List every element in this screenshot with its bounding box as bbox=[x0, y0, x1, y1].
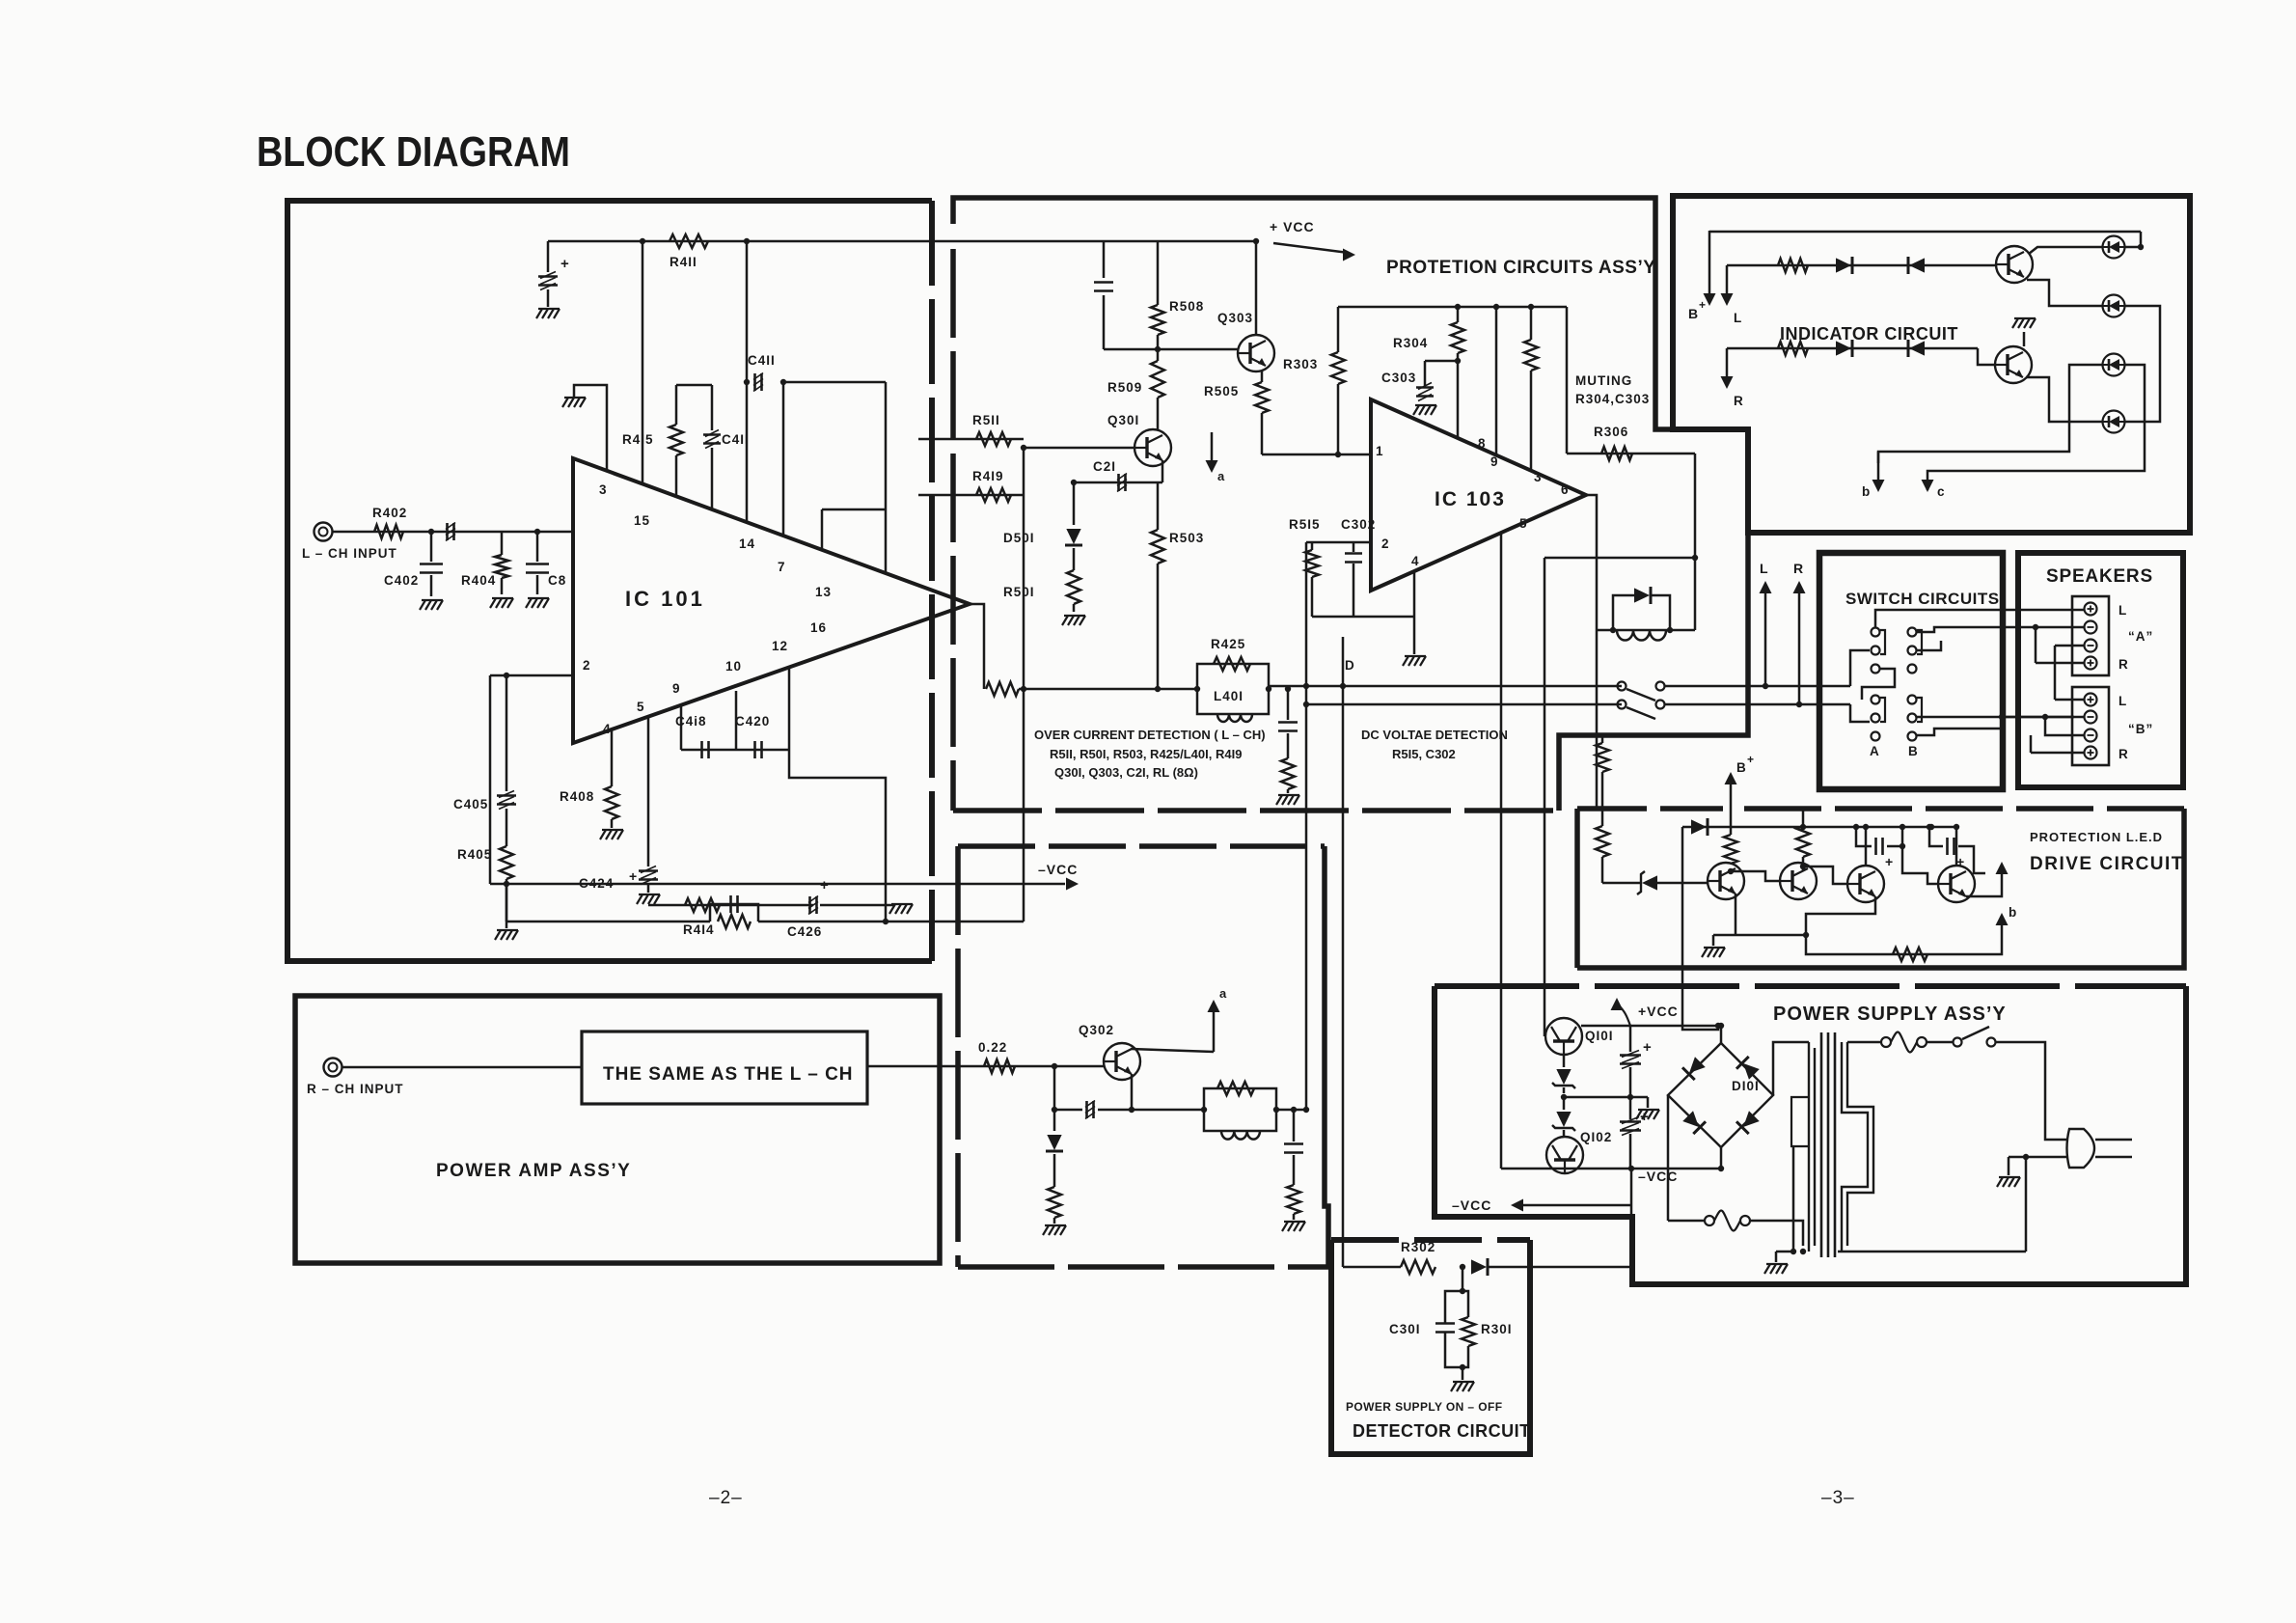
transformer core bbox=[1820, 1032, 1823, 1257]
wire +VCC rail box1 bbox=[548, 240, 1256, 243]
svg-text:a: a bbox=[1219, 986, 1227, 1001]
svg-text:+: + bbox=[1643, 1039, 1653, 1056]
terminal A Lminus bbox=[2085, 621, 2097, 634]
wire T1 emitter to LED2 bbox=[2027, 280, 2102, 306]
resistor R304 bbox=[1457, 307, 1460, 322]
wire feedback elbow bbox=[789, 750, 886, 921]
ground xfmr bbox=[1775, 1252, 1778, 1262]
resistor R302 bbox=[1401, 1260, 1435, 1274]
wire Q303 collector bbox=[1255, 241, 1258, 335]
box R-CH protection circuits outline bbox=[958, 843, 1325, 849]
svg-text:+: + bbox=[820, 877, 830, 894]
diode D det bbox=[1471, 1259, 1487, 1274]
capacitor C303 bbox=[1425, 360, 1458, 363]
svg-text:R: R bbox=[2118, 747, 2129, 761]
svg-text:4: 4 bbox=[1411, 554, 1420, 568]
wire second line bbox=[1306, 703, 1622, 706]
svg-text:13: 13 bbox=[815, 585, 832, 599]
wire C424 tail bbox=[647, 883, 650, 893]
ground C402 bbox=[420, 600, 425, 610]
resistor R 0.22 bbox=[984, 1059, 1015, 1073]
capacitor C424 bbox=[639, 869, 658, 872]
resistor R indicator L bbox=[1778, 259, 1808, 272]
ground R404 bbox=[490, 598, 496, 608]
box R-CH power amp assy outline bbox=[295, 996, 940, 1263]
wire sw B lower bot bbox=[1917, 627, 2002, 735]
svg-text:3: 3 bbox=[1534, 470, 1543, 484]
box protection led drive circuit outline bbox=[1574, 809, 1580, 968]
svg-text:4: 4 bbox=[603, 722, 612, 736]
resistor R419 bbox=[976, 488, 1011, 502]
svg-text:R4II: R4II bbox=[670, 255, 697, 269]
svg-text:–VCC: –VCC bbox=[1452, 1197, 1491, 1213]
ground +VCC cap bbox=[536, 309, 542, 318]
svg-text:+VCC: +VCC bbox=[1638, 1004, 1679, 1019]
resistor R drive b bbox=[1893, 948, 1927, 961]
switch cluster A lower bbox=[1872, 696, 1880, 704]
wire pin2 drop bbox=[489, 675, 492, 884]
wire D drop bbox=[1342, 637, 1345, 1267]
capacitor parallel RC bbox=[729, 895, 732, 913]
diode D101 sw bbox=[1681, 1110, 1706, 1134]
transistor Q ind R bbox=[1995, 346, 2032, 383]
resistor R303 bbox=[1337, 307, 1340, 352]
svg-text:C8: C8 bbox=[548, 573, 566, 588]
terminal B Rminus bbox=[2085, 729, 2097, 742]
node RL right bbox=[1273, 1107, 1279, 1113]
node pin9 rail bbox=[1493, 304, 1499, 310]
arrow R up bbox=[1796, 701, 1802, 707]
node R508 bottom bbox=[1155, 346, 1161, 352]
svg-text:b: b bbox=[2009, 905, 2017, 920]
svg-text:16: 16 bbox=[810, 620, 827, 635]
svg-text:7: 7 bbox=[778, 560, 786, 574]
capacitor C decouple + bbox=[547, 241, 550, 272]
wire det feed bbox=[1343, 1266, 1401, 1269]
wire pin13 bracket bbox=[822, 509, 886, 511]
svg-text:R509: R509 bbox=[1107, 380, 1142, 395]
wire Q301 emitter bbox=[1162, 460, 1164, 482]
svg-text:C30I: C30I bbox=[1389, 1322, 1421, 1336]
wire sw R elbow bbox=[1850, 704, 1870, 722]
resistor R511 wire bbox=[918, 438, 1024, 441]
svg-text:R5I5: R5I5 bbox=[1289, 517, 1321, 532]
wire Q301 base row bbox=[1024, 447, 1134, 450]
wire y955 long bbox=[506, 921, 710, 923]
svg-text:SPEAKERS: SPEAKERS bbox=[2046, 566, 2153, 587]
wire main L out bbox=[1269, 685, 1622, 688]
wire C detect drop bbox=[1287, 689, 1290, 720]
wire Q2 collector bbox=[1802, 864, 1805, 871]
svg-text:DETECTOR CIRCUIT: DETECTOR CIRCUIT bbox=[1353, 1421, 1531, 1441]
node C301 top bbox=[1460, 1288, 1465, 1294]
node cap1 right rail bbox=[1900, 824, 1905, 830]
node RL left bbox=[1201, 1107, 1207, 1113]
wire pin7 feed bbox=[782, 382, 785, 536]
arrow b drive bbox=[1996, 913, 2009, 925]
capacitor C420 bbox=[753, 741, 756, 758]
arrow c down bbox=[1922, 480, 1934, 492]
node Q2 rail bbox=[1800, 824, 1806, 830]
arrow a up box3 bbox=[1131, 1049, 1214, 1052]
wire pin9 feed bbox=[1495, 307, 1498, 455]
ground indicator bbox=[2012, 318, 2018, 328]
svg-text:Q303: Q303 bbox=[1217, 311, 1253, 325]
wire term B L- bbox=[2002, 716, 2084, 719]
svg-text:–VCC: –VCC bbox=[1638, 1169, 1678, 1184]
wire term A L+ bbox=[2074, 609, 2084, 612]
wire relay branch bbox=[1694, 558, 1697, 630]
wire T2 emitter to LED4 bbox=[2026, 377, 2102, 422]
svg-text:PROTETION CIRCUITS ASS’Y: PROTETION CIRCUITS ASS’Y bbox=[1386, 258, 1655, 278]
wire Q1 to Q2 base bbox=[1731, 871, 1780, 881]
wire term B R- bbox=[2045, 717, 2084, 735]
resistor R415 bbox=[675, 385, 678, 425]
svg-text:“B”: “B” bbox=[2128, 722, 2153, 736]
svg-text:+: + bbox=[1699, 298, 1707, 312]
wire LED2 to LED4 chain bbox=[2125, 306, 2160, 422]
svg-text:DRIVE CIRCUIT: DRIVE CIRCUIT bbox=[2030, 854, 2184, 874]
wire Q302 emitter bbox=[1132, 1074, 1204, 1110]
diode D101 se bbox=[1736, 1110, 1761, 1134]
wire R408 tail bbox=[611, 819, 614, 828]
node C411 left bbox=[744, 379, 750, 385]
box THE SAME AS THE L-CH bbox=[582, 1032, 867, 1104]
svg-text:C402: C402 bbox=[384, 573, 419, 588]
wire pin5 stub bbox=[647, 716, 650, 867]
svg-text:c: c bbox=[1937, 484, 1946, 499]
svg-text:R4I5: R4I5 bbox=[622, 432, 654, 447]
arrow +VCC diagonal bbox=[1273, 243, 1349, 253]
svg-text:–2–: –2– bbox=[709, 1488, 743, 1508]
resistor R503 bbox=[1157, 482, 1160, 530]
wire fuse2 right bbox=[1750, 1221, 1803, 1246]
svg-text:R304: R304 bbox=[1393, 336, 1428, 350]
wire rail elbow to LED1 bbox=[2125, 232, 2141, 247]
wire pin12 stub bbox=[735, 691, 738, 750]
svg-text:INDICATOR CIRCUIT: INDICATOR CIRCUIT bbox=[1780, 324, 1958, 344]
node Q302 base tap bbox=[1052, 1063, 1057, 1069]
wire pin4 stub bbox=[1413, 571, 1416, 617]
switch S power bbox=[1954, 1038, 1962, 1047]
resistor R404 bbox=[501, 532, 504, 555]
wire pin10 stub bbox=[680, 706, 683, 750]
box power supply on-off detector circuit outline bbox=[1331, 1237, 1530, 1243]
terminal A Rminus bbox=[2085, 640, 2097, 652]
svg-text:DC VOLTAE DETECTION: DC VOLTAE DETECTION bbox=[1361, 728, 1508, 742]
wire C21 row bbox=[1074, 481, 1162, 484]
resistor R indicator R bbox=[1778, 342, 1808, 355]
svg-text:R306: R306 bbox=[1594, 425, 1628, 439]
node R302 out bbox=[1460, 1264, 1465, 1270]
node R411 right bbox=[744, 238, 750, 244]
jack J2 R-CH input bbox=[324, 1059, 342, 1077]
wire xfmr top out bbox=[1847, 1041, 1881, 1044]
svg-text:C2I: C2I bbox=[1093, 459, 1116, 474]
box speakers outline bbox=[2018, 553, 2183, 787]
op-amp IC101 bbox=[573, 458, 970, 743]
node y955 tap bbox=[504, 881, 509, 887]
transistor Q301 bbox=[1134, 429, 1171, 466]
node Q1 collector bbox=[1728, 868, 1734, 874]
resistor R box3 diode bbox=[1048, 1187, 1061, 1218]
bridge D101 outline bbox=[1668, 1043, 1773, 1147]
capacitor C402 bbox=[430, 532, 433, 562]
node R503 output bbox=[1155, 686, 1161, 692]
wire T1 collector to LED1 bbox=[2029, 247, 2102, 254]
svg-text:+: + bbox=[1747, 753, 1755, 766]
svg-text:2: 2 bbox=[1381, 536, 1390, 551]
svg-text:IC 103: IC 103 bbox=[1435, 488, 1506, 510]
wire R-CH line bbox=[867, 1065, 1104, 1068]
wire term A R- bbox=[2055, 645, 2084, 647]
svg-text:R – CH INPUT: R – CH INPUT bbox=[307, 1082, 404, 1096]
zener D zener1 bbox=[1563, 1055, 1566, 1067]
terminal A L+ bbox=[2085, 603, 2097, 616]
transistor Q101 bbox=[1545, 1018, 1582, 1055]
svg-text:IC 101: IC 101 bbox=[625, 587, 705, 611]
wire sense riser bbox=[1023, 448, 1025, 922]
wire out net drop bbox=[1544, 558, 1546, 1036]
resistor R515 bbox=[1311, 542, 1314, 550]
terminal B L+ bbox=[2085, 694, 2097, 706]
wire sw A up feed bbox=[1875, 610, 2074, 627]
resistor parallel RC bbox=[718, 915, 751, 928]
wire R306 row bbox=[1567, 453, 1695, 455]
resistor R425 bbox=[1214, 657, 1250, 671]
wire indicator row L bbox=[1727, 264, 1997, 267]
resistor R505 bbox=[1261, 371, 1264, 382]
svg-text:A: A bbox=[1870, 744, 1880, 758]
wire Q3 emitter down bbox=[1806, 896, 1875, 935]
svg-text:3: 3 bbox=[599, 482, 608, 497]
node cap1 rail bbox=[1853, 824, 1859, 830]
transistor Q303 bbox=[1238, 335, 1274, 371]
fuse F1 primary bbox=[1881, 1037, 1891, 1047]
arrow L down bbox=[1726, 265, 1729, 294]
wire pin3 hook bbox=[574, 385, 607, 472]
ground plug bbox=[1997, 1177, 2003, 1187]
svg-text:R4I4: R4I4 bbox=[683, 922, 715, 937]
wire ps cap column bbox=[1629, 1026, 1632, 1052]
switch cluster B lower bbox=[1908, 696, 1917, 704]
ground ps mid bbox=[1647, 1097, 1650, 1108]
svg-text:9: 9 bbox=[1490, 454, 1499, 469]
wire bridge top bbox=[1720, 1026, 1723, 1043]
wire relay coil row bbox=[1597, 629, 1695, 632]
svg-text:6: 6 bbox=[1561, 482, 1570, 497]
wire bridge left down bbox=[1667, 1095, 1670, 1221]
ground box3 out bbox=[1282, 1222, 1288, 1231]
wire indicator row R bbox=[1727, 347, 1978, 350]
ground box3 diode bbox=[1043, 1225, 1049, 1235]
svg-text:5: 5 bbox=[637, 700, 645, 714]
svg-text:L40I: L40I bbox=[1214, 689, 1244, 703]
terminal block B bbox=[2072, 687, 2109, 765]
diode D101 ne bbox=[1736, 1057, 1761, 1081]
wire row R jog bbox=[1978, 348, 1995, 365]
wire zener gnd row bbox=[1564, 1096, 1648, 1099]
wire sw B upper stub bbox=[1917, 627, 2074, 632]
ground detector bbox=[1451, 1382, 1457, 1391]
capacitor C drive2 bbox=[1929, 827, 1943, 846]
ground pin4 bbox=[1413, 617, 1416, 654]
svg-text:R402: R402 bbox=[372, 506, 407, 520]
svg-text:R: R bbox=[1734, 394, 1744, 408]
arrow B+ drive bbox=[1730, 778, 1733, 835]
capacitor C detect bbox=[1278, 721, 1298, 724]
relay coil L bbox=[1617, 630, 1666, 641]
box indicator circuit outline bbox=[1673, 196, 2190, 533]
diode D ind L1 bbox=[1836, 258, 1851, 272]
wire IC103 out elbow bbox=[1586, 495, 1597, 811]
wire fuse to switch bbox=[1927, 1041, 1954, 1044]
ground R405 bbox=[495, 930, 501, 940]
wire ps cap bottom bbox=[1629, 1134, 1632, 1169]
svg-text:C4i8: C4i8 bbox=[675, 714, 707, 729]
wire pin14 feed bbox=[746, 241, 749, 521]
box power supply assy outline bbox=[1435, 983, 2186, 989]
capacitor C21 bbox=[1117, 474, 1120, 491]
svg-text:R303: R303 bbox=[1283, 357, 1318, 371]
wire plug bottom bbox=[2025, 1157, 2028, 1252]
ground pin3 bbox=[562, 398, 568, 407]
svg-text:R302: R302 bbox=[1401, 1240, 1435, 1254]
svg-text:Q30I: Q30I bbox=[1107, 413, 1139, 427]
wire Q302 cap branch bbox=[1053, 1066, 1056, 1110]
wire Q101 collector rail bbox=[1581, 1025, 1721, 1028]
wire R414 row bbox=[648, 904, 813, 907]
svg-text:10: 10 bbox=[725, 659, 742, 674]
wire pin5 stub bbox=[1500, 533, 1503, 986]
svg-text:14: 14 bbox=[739, 536, 755, 551]
ground C8 bbox=[526, 598, 532, 608]
inductor L401 bbox=[1217, 714, 1252, 722]
svg-text:R50I: R50I bbox=[1003, 585, 1035, 599]
node coil right bbox=[1667, 627, 1673, 633]
svg-text:5: 5 bbox=[1519, 516, 1528, 531]
pin2 net R515 C302 bbox=[1306, 541, 1371, 544]
node pin2 tap bbox=[504, 673, 509, 678]
transistor Q ind L bbox=[1996, 246, 2033, 283]
svg-text:C405: C405 bbox=[453, 797, 488, 811]
capacitor C decouple base bbox=[1103, 241, 1106, 278]
svg-text:R404: R404 bbox=[461, 573, 496, 588]
diode D501 bbox=[1073, 482, 1076, 525]
svg-text:POWER AMP ASS’Y: POWER AMP ASS’Y bbox=[436, 1161, 631, 1181]
parallel RL box3 bbox=[1204, 1088, 1276, 1131]
wire R415 C411 bridge bbox=[676, 384, 712, 387]
svg-text:QI0I: QI0I bbox=[1585, 1029, 1614, 1043]
svg-text:“A”: “A” bbox=[2128, 629, 2153, 644]
arrow L up bbox=[1763, 683, 1768, 689]
svg-text:L: L bbox=[2118, 603, 2127, 618]
wire indicator top rail bbox=[1709, 231, 2141, 234]
wire drive top rail bbox=[1682, 826, 1959, 829]
wire det gnd stem bbox=[1462, 1367, 1464, 1380]
ground detect bbox=[1276, 795, 1282, 805]
node R411 left bbox=[640, 238, 645, 244]
capacitor C302 bbox=[1353, 542, 1355, 552]
wire sw upper bottom stub bbox=[1862, 669, 1895, 700]
wire R306 down bbox=[1694, 454, 1697, 558]
svg-text:R408: R408 bbox=[560, 789, 594, 804]
wire -VCC feed bbox=[490, 883, 1065, 886]
svg-text:+: + bbox=[560, 256, 570, 272]
svg-text:R5I5, C302: R5I5, C302 bbox=[1392, 747, 1456, 761]
svg-text:12: 12 bbox=[772, 639, 788, 653]
wire fuse2 row bbox=[1668, 1220, 1705, 1223]
svg-text:B: B bbox=[1736, 760, 1747, 775]
switch cluster A upper bbox=[1872, 628, 1880, 637]
node R306 out bbox=[1692, 555, 1698, 561]
node C21 left bbox=[1071, 480, 1077, 485]
capacitor C ps1 bbox=[1620, 1054, 1641, 1057]
svg-text:+: + bbox=[1885, 854, 1894, 869]
wire det vertical bbox=[1305, 542, 1308, 1110]
diode D101 nw bbox=[1682, 1056, 1707, 1080]
wire Q101 base bbox=[1544, 1035, 1546, 1038]
diode D ind R2 bbox=[1909, 341, 1925, 355]
resistor R box3 par bbox=[1217, 1082, 1254, 1095]
led LED1 bbox=[2103, 236, 2125, 259]
transformer tap bbox=[1791, 1097, 1809, 1146]
node coil left bbox=[1610, 627, 1616, 633]
wire R-CH input line bbox=[342, 1066, 582, 1069]
node detect tap bbox=[1285, 686, 1291, 692]
svg-text:B: B bbox=[1908, 744, 1919, 758]
svg-text:15: 15 bbox=[634, 513, 650, 528]
parallel RC on y955 bbox=[710, 904, 758, 922]
fuse F2 secondary bbox=[1705, 1216, 1714, 1225]
wire ps bottom long rail bbox=[1838, 1251, 2026, 1253]
node Q301 base tap bbox=[1021, 445, 1026, 451]
svg-text:BLOCK DIAGRAM: BLOCK DIAGRAM bbox=[257, 128, 570, 176]
svg-text:C302: C302 bbox=[1341, 517, 1376, 532]
wire term B R+ bbox=[2031, 752, 2084, 755]
wire term A R+ bbox=[2036, 662, 2084, 665]
node Rmut rail bbox=[1528, 304, 1534, 310]
node R304 bottom bbox=[1455, 358, 1461, 364]
resistor R muting bbox=[1530, 307, 1533, 340]
wire Q4 collector bbox=[1955, 827, 1958, 866]
box switch circuits outline bbox=[1819, 553, 2003, 789]
terminal B Lminus bbox=[2085, 711, 2097, 724]
wire term A L- bbox=[2074, 626, 2084, 629]
node output sense tap bbox=[1021, 686, 1026, 692]
zener D zener drive bbox=[1602, 882, 1640, 885]
wire Q3 collector bbox=[1865, 827, 1868, 866]
resistor R drive left bbox=[1601, 784, 1604, 826]
capacitor C418 bbox=[700, 741, 703, 758]
node out 1352 bbox=[1303, 683, 1309, 689]
op-amp IC103 bbox=[1371, 399, 1586, 591]
diode D ind L2 bbox=[1909, 258, 1925, 272]
capacitor C301 bbox=[1435, 1322, 1455, 1325]
ground R501 bbox=[1062, 616, 1068, 625]
svg-text:C426: C426 bbox=[787, 924, 822, 939]
arrow +VCC ps bbox=[1619, 1005, 1630, 1026]
ground R408 bbox=[600, 830, 606, 839]
resistor R drive Q2 bbox=[1802, 809, 1805, 826]
wire pin1 row bbox=[1262, 454, 1371, 456]
led LED2 bbox=[2103, 295, 2125, 317]
led LED4 bbox=[2103, 411, 2125, 433]
arrow B+ down bbox=[1708, 231, 1711, 294]
svg-text:R304,C303: R304,C303 bbox=[1575, 392, 1650, 406]
svg-text:C420: C420 bbox=[735, 714, 770, 729]
wire right bracket vertical bbox=[885, 382, 888, 573]
